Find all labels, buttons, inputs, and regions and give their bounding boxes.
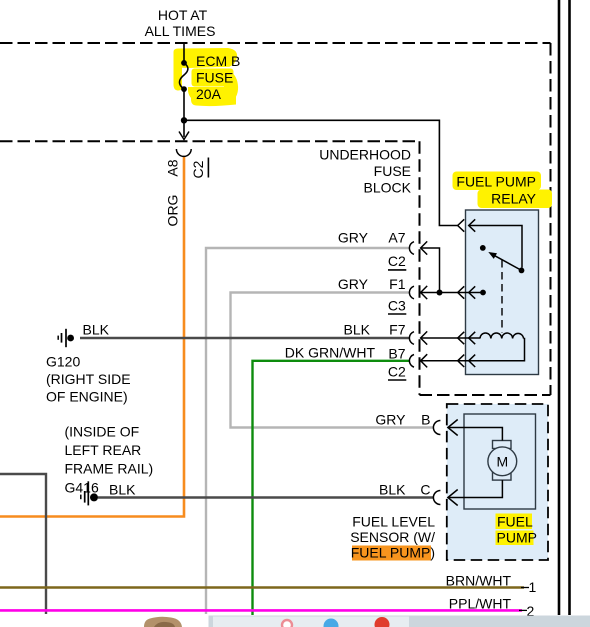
wire coil return to B7 (421, 339, 525, 361)
connector female A8 (cup) (176, 149, 191, 156)
wire from hot feed into fuse (183, 43, 185, 61)
svg-text:FUEL: FUEL (497, 513, 533, 529)
taskbar photo thumbnail (144, 617, 182, 627)
arrow into connector C2 A8 (179, 132, 189, 140)
relay NC contact dot (480, 245, 486, 251)
svg-text:C2: C2 (190, 160, 206, 178)
relay actuator dashed link (501, 260, 503, 333)
svg-text:C3: C3 (388, 298, 406, 314)
svg-text:C2: C2 (388, 253, 406, 269)
underline C3 (F1) (388, 313, 406, 315)
connector male F7 (421, 331, 428, 344)
connector male pump C (448, 490, 458, 506)
highlight FUEL PUMP label (yellow) (496, 514, 534, 546)
relay switch arm (494, 255, 522, 270)
svg-text:B: B (421, 411, 430, 427)
relay edge chevrons B7 (458, 355, 476, 367)
svg-text:C: C (420, 482, 430, 498)
wire F7 into coil (421, 337, 480, 339)
fuel pump dashed box (447, 404, 548, 560)
svg-text:FUSE: FUSE (196, 70, 233, 86)
wire branch to relay pin 30 (184, 120, 458, 225)
svg-text:BLK: BLK (109, 481, 136, 497)
connector male F1 (421, 286, 428, 299)
taskbar icon red (375, 617, 390, 627)
fuse terminal dot bottom (181, 86, 187, 92)
relay coil (480, 333, 524, 338)
highlight FUEL PUMP RELAY label (453, 172, 553, 209)
relay switch arm arrowhead (488, 252, 497, 259)
wire pump B inside (448, 428, 503, 441)
taskbar light panel (213, 617, 409, 627)
highlight FUEL PUMP (orange, sensor label) (352, 546, 431, 561)
svg-text:DK GRN/WHT: DK GRN/WHT (285, 345, 376, 361)
underline C2 (B7) (388, 379, 406, 381)
relay edge chevrons F1 (458, 286, 476, 298)
svg-text:G416: G416 (65, 479, 99, 495)
svg-text:UNDERHOOD: UNDERHOOD (319, 147, 411, 163)
connector female A7 (409, 242, 414, 255)
svg-text:BLK: BLK (379, 482, 406, 498)
fuel pump inner enclosure (464, 414, 536, 509)
svg-text:LEFT REAR: LEFT REAR (65, 442, 142, 458)
relay edge chevrons pin30 (458, 219, 476, 231)
svg-text:PUMP: PUMP (497, 530, 537, 546)
svg-text:OF ENGINE): OF ENGINE) (46, 389, 128, 405)
wire F1 into relay NO contact (421, 292, 483, 294)
underline C2 (A7) (388, 269, 406, 271)
svg-text:FUSE: FUSE (374, 163, 411, 179)
svg-text:F7: F7 (389, 321, 406, 337)
taskbar icon pink (282, 620, 292, 627)
svg-text:ORG: ORG (164, 195, 180, 227)
connector female pump C (433, 491, 440, 505)
svg-text:(RIGHT SIDE: (RIGHT SIDE (46, 371, 131, 387)
highlight ECM B FUSE 20A (174, 48, 239, 106)
taskbar icon blue (324, 619, 339, 627)
underline tick C2 (A8, rotated) (207, 158, 209, 178)
svg-text:BLK: BLK (344, 321, 371, 337)
svg-text:GRY: GRY (375, 411, 406, 427)
wire BRN/WHT 1 (0, 586, 524, 589)
svg-text:FUEL PUMP: FUEL PUMP (456, 174, 536, 190)
svg-text:BLOCK: BLOCK (364, 180, 412, 196)
junction node fuse branch (181, 117, 187, 123)
connector female pump B (433, 421, 440, 435)
svg-text:C2: C2 (388, 363, 406, 379)
wire dark bottom-left (0, 474, 46, 614)
svg-text:G120: G120 (46, 354, 80, 370)
svg-text:GRY: GRY (338, 230, 369, 246)
wire PPL/WHT 2 (0, 609, 522, 612)
wire A7 to F1 link (421, 248, 440, 293)
wire fuse output down (183, 89, 185, 137)
svg-text:1: 1 (529, 579, 537, 595)
svg-text:FUEL PUMP): FUEL PUMP) (351, 545, 435, 561)
relay common dot (519, 268, 525, 274)
svg-text:M: M (496, 453, 508, 469)
dashed vertical fuse block column left (419, 141, 421, 395)
connector male A7 (421, 241, 428, 254)
page border line 2 (568, 0, 571, 615)
relay box U1 body (466, 210, 539, 375)
connector female F7 (409, 332, 414, 345)
dashed vertical fuse block right edge (550, 43, 552, 395)
svg-text:A7: A7 (388, 230, 405, 246)
wire pump C inside (448, 480, 503, 497)
svg-text:A8: A8 (165, 159, 181, 176)
svg-text:20A: 20A (196, 86, 222, 102)
svg-text:ALL TIMES: ALL TIMES (145, 23, 216, 39)
svg-text:(INSIDE OF: (INSIDE OF (65, 424, 140, 440)
svg-text:F1: F1 (389, 276, 406, 292)
svg-text:FRAME RAIL): FRAME RAIL) (65, 461, 154, 477)
wire BLK G120 to F7 (80, 337, 410, 339)
svg-text:GRY: GRY (338, 276, 369, 292)
connector male pump B (448, 420, 458, 436)
fuse ECM B 20A element (179, 63, 187, 89)
svg-text:BLK: BLK (83, 321, 110, 337)
svg-text:PPL/WHT: PPL/WHT (449, 595, 512, 611)
relay top terminal wire inside (469, 226, 522, 268)
svg-text:ECM B: ECM B (196, 53, 240, 69)
svg-text:HOT AT: HOT AT (158, 7, 208, 23)
wire GRY A7 (206, 248, 410, 614)
connector male B7 (421, 354, 428, 367)
svg-text:FUEL LEVEL: FUEL LEVEL (352, 514, 435, 530)
wire ORG A8 (0, 157, 184, 517)
pin tick 2 (519, 609, 527, 611)
dashed line relay box bottom (420, 394, 551, 396)
fuse terminal dot top (181, 60, 187, 66)
fuel pump motor M (488, 441, 517, 481)
junction dot F1 (437, 290, 443, 296)
connector female B7 (409, 355, 414, 368)
svg-text:BRN/WHT: BRN/WHT (446, 572, 512, 588)
ground G120 (58, 329, 74, 347)
pin tick 1 (521, 587, 529, 589)
wire DK GRN/WHT B7 (253, 361, 410, 615)
ground G416 (81, 481, 98, 505)
page border line 1 (558, 0, 561, 615)
dashed line fuse block bottom (0, 140, 420, 142)
taskbar strip background (209, 616, 590, 627)
dashed line top (hot at all times boundary) (0, 42, 551, 44)
svg-text:SENSOR (W/: SENSOR (W/ (350, 529, 435, 545)
connector female F1 (409, 286, 414, 299)
relay edge chevrons F7 (458, 332, 476, 344)
wire BLK G416 to pump C (98, 496, 434, 498)
svg-text:RELAY: RELAY (491, 191, 537, 207)
svg-text:B7: B7 (388, 345, 405, 361)
wire GRY F1 to pump B (231, 293, 434, 428)
relay NO contact dot (480, 290, 486, 296)
